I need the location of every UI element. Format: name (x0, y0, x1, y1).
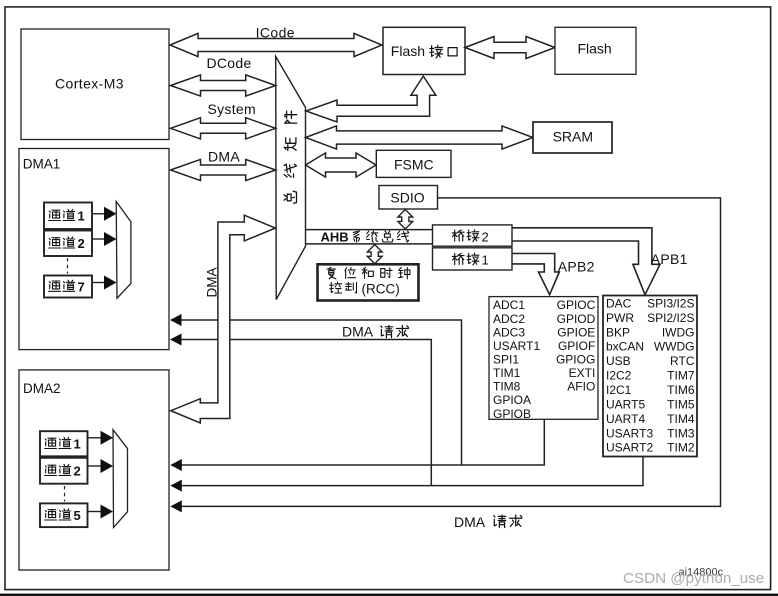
svg-text:SPI2/I2S: SPI2/I2S (647, 311, 694, 325)
wire+arrow APB2 from bridge1 (512, 254, 559, 295)
svg-text:WWDG: WWDG (654, 340, 695, 354)
svg-text:DMA: DMA (454, 514, 486, 530)
bus matrix 总线矩阵 polygon (276, 57, 306, 300)
svg-text:GPIOD: GPIOD (557, 312, 596, 326)
svg-text:GPIOG: GPIOG (556, 352, 595, 366)
svg-text:RTC: RTC (670, 354, 695, 368)
svg-text:PWR: PWR (606, 311, 634, 325)
svg-text:TIM1: TIM1 (493, 366, 521, 380)
svg-text:BKP: BKP (606, 325, 630, 339)
svg-text:2: 2 (74, 464, 81, 479)
svg-text:TIM8: TIM8 (493, 380, 521, 394)
block APB2 peripherals (489, 297, 598, 420)
svg-text:GPIOC: GPIOC (557, 298, 596, 312)
arrow DMA (big hollow, bus matrix to DMA2) (171, 215, 275, 423)
svg-text:IWDG: IWDG (662, 325, 695, 339)
arrow AHB bus <-> RCC (367, 245, 382, 264)
svg-text:CSDN @python_use: CSDN @python_use (623, 570, 764, 587)
block 通道2 (channel 2) (40, 458, 88, 484)
svg-text:ADC1: ADC1 (493, 298, 525, 312)
block 通道1 (channel 1) (44, 203, 92, 230)
dashed wire channel2..channel7 (67, 258, 69, 274)
block 桥接2 (bridge 2) (433, 225, 513, 246)
svg-text:1: 1 (74, 437, 81, 452)
label 总线矩阵 (rotated) (284, 111, 297, 203)
wire channel to mux (92, 213, 105, 215)
arrowhead DMA request into DMA2 (y=506.4) (170, 500, 182, 512)
block FSMC (376, 150, 451, 177)
block 通道5 (channel 5) (40, 503, 88, 527)
svg-text:AHB: AHB (321, 230, 349, 245)
wire AHB system bus (double line) (306, 229, 433, 231)
wire channel to mux (92, 282, 105, 284)
block Flash (555, 27, 636, 74)
svg-text:(RCC): (RCC) (362, 281, 400, 296)
svg-text:I2C1: I2C1 (606, 383, 632, 397)
block APB1 peripherals (603, 296, 697, 457)
block SDIO (379, 186, 438, 210)
svg-text:SRAM: SRAM (553, 128, 593, 144)
block Cortex-M3 (21, 29, 169, 140)
label DMA (rotated) (205, 268, 220, 298)
svg-text:ICode: ICode (256, 24, 295, 40)
svg-text:ADC3: ADC3 (493, 325, 525, 339)
svg-text:DMA: DMA (208, 148, 240, 164)
svg-text:TIM2: TIM2 (667, 441, 695, 455)
svg-text:APB1: APB1 (651, 251, 688, 267)
svg-text:Cortex-M3: Cortex-M3 (55, 76, 124, 92)
wire channel to mux (92, 238, 105, 240)
wire APB1 peripherals to DMA request line y=485.6 (181, 457, 643, 486)
svg-text:TIM4: TIM4 (667, 412, 695, 426)
svg-text:ADC2: ADC2 (493, 312, 525, 326)
arrowhead DMA request into DMA1 (y=320) (170, 314, 182, 326)
svg-text:1: 1 (482, 253, 489, 268)
wire branch up to DMA1 request line y=320 (181, 320, 462, 465)
arrow ICode bus to Flash interface (bent, two heads) (306, 76, 436, 122)
svg-text:bxCAN: bxCAN (606, 340, 644, 354)
svg-text:I2C2: I2C2 (606, 369, 632, 383)
arrow DMA lane (DMA1 to bus matrix) (171, 159, 276, 180)
block 通道7 (channel 7) (44, 276, 92, 298)
svg-text:TIM6: TIM6 (667, 383, 695, 397)
svg-text:Flash: Flash (391, 43, 425, 59)
wire+arrow APB1 from bridge2 (512, 228, 660, 295)
mux trapezoid DMA2 (113, 430, 128, 528)
arrow bus matrix <-> SRAM (306, 126, 534, 149)
mux trapezoid DMA1 (116, 202, 131, 299)
svg-text:USART1: USART1 (493, 339, 540, 353)
svg-text:UART4: UART4 (606, 412, 645, 426)
svg-text:GPIOA: GPIOA (493, 393, 531, 407)
svg-text:7: 7 (78, 279, 85, 294)
svg-text:SPI3/I2S: SPI3/I2S (647, 296, 694, 310)
block 复位和时钟控制(RCC) (318, 264, 419, 300)
wire APB2 peripherals to DMA request line y=465 (181, 419, 544, 465)
svg-text:DAC: DAC (606, 296, 632, 310)
block SRAM (533, 122, 612, 153)
arrow DCode (171, 75, 276, 96)
svg-text:APB2: APB2 (558, 258, 595, 274)
wire branch up to DMA1 request line y=339.5 (181, 340, 431, 486)
arrow SDIO <-> AHB bus (398, 210, 413, 230)
svg-text:USART2: USART2 (606, 441, 653, 455)
block Flash 接口 (flash interface) (383, 27, 465, 74)
block DMA1 (19, 149, 169, 350)
svg-text:TIM3: TIM3 (667, 426, 695, 440)
block 通道2 (channel 2) (44, 231, 92, 257)
svg-text:DMA: DMA (342, 324, 374, 340)
arrow bus matrix <-> FSMC (306, 153, 377, 177)
dashed wire channel2..channel5 (64, 486, 66, 502)
wire channel to mux (88, 465, 102, 467)
wire SDIO to right-edge bus (x=720.5) down to DMA2 request line (181, 198, 721, 507)
svg-text:TIM5: TIM5 (667, 397, 695, 411)
arrowhead DMA request into DMA2 (y=465) (170, 459, 182, 471)
svg-text:DMA: DMA (205, 268, 220, 298)
svg-text:GPIOE: GPIOE (557, 325, 595, 339)
block DMA2 (19, 370, 169, 570)
svg-text:USB: USB (606, 354, 631, 368)
svg-text:2: 2 (482, 229, 489, 244)
svg-text:UART5: UART5 (606, 397, 645, 411)
wire channel to mux (88, 437, 102, 439)
svg-text:GPIOF: GPIOF (558, 339, 595, 353)
svg-text:SDIO: SDIO (390, 190, 424, 206)
wire channel to mux (88, 511, 102, 513)
block 桥接1 (bridge 1) (433, 248, 513, 270)
svg-text:DMA2: DMA2 (23, 381, 61, 396)
svg-text:Flash: Flash (577, 41, 611, 57)
arrowhead DMA request into DMA1 (y=339.5) (170, 334, 182, 346)
svg-text:2: 2 (78, 236, 85, 251)
svg-text:System: System (207, 101, 255, 117)
block 通道1 (channel 1) (40, 431, 88, 456)
svg-text:TIM7: TIM7 (667, 369, 695, 383)
svg-text:FSMC: FSMC (394, 156, 434, 172)
arrow ICode (170, 33, 382, 56)
arrow System (171, 118, 276, 139)
svg-text:EXTI: EXTI (569, 366, 596, 380)
arrowhead DMA request into DMA2 (y=485.6) (170, 480, 182, 492)
svg-text:5: 5 (74, 508, 81, 523)
svg-text:DMA1: DMA1 (23, 156, 61, 171)
svg-text:USART3: USART3 (606, 426, 653, 440)
svg-text:GPIOB: GPIOB (493, 407, 531, 421)
arrow Flash interface <-> Flash (465, 37, 555, 59)
svg-text:DCode: DCode (206, 55, 251, 71)
bottom edge bar (0, 594, 778, 596)
svg-text:AFIO: AFIO (567, 380, 595, 394)
svg-text:1: 1 (78, 209, 85, 224)
svg-text:SPI1: SPI1 (493, 352, 519, 366)
